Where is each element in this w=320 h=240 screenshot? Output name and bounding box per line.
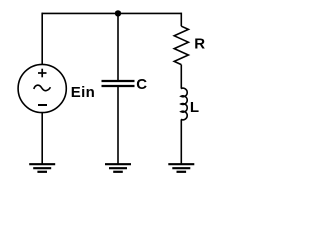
AC source minus sign [38,104,47,106]
svg-text:C: C [136,76,147,93]
svg-text:R: R [194,36,205,53]
inductor L (coil of 4 loops) [181,88,187,120]
wire: resistor to inductor lead [180,65,182,89]
ground (right) [168,164,194,172]
ground (middle) [105,164,131,172]
svg-text:Ein: Ein [71,84,96,101]
wire: top horizontal bus [42,12,181,14]
AC source sine symbol [34,85,51,91]
node: junction at top of capacitor branch [115,10,121,16]
wire: inductor bottom lead [180,119,182,164]
wire: source top lead [41,13,43,65]
wire: source bottom lead [41,113,43,165]
wire: resistor top lead [180,13,182,27]
AC source plus sign [38,69,47,78]
resistor R (zigzag) [174,26,188,64]
wire: capacitor bottom lead [117,86,119,164]
svg-text:L: L [190,99,199,116]
ground (left) [29,164,55,172]
capacitor C (plates) [102,81,135,86]
wire: capacitor top lead [117,13,119,81]
AC source Ein (circle body) [18,64,66,112]
